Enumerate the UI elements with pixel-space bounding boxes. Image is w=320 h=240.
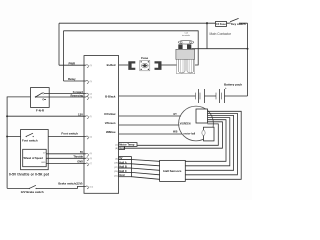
node foot switch junction: [6, 136, 8, 138]
wire key switch branch vertical: [206, 23, 208, 49]
wire 12V: [7, 115, 86, 117]
svg-text:(5): (5): [90, 81, 93, 83]
svg-text:15 Fuse: 15 Fuse: [216, 22, 226, 26]
svg-text:U/Yellow: U/Yellow: [104, 112, 116, 116]
wire contactor to battery riser: [192, 48, 248, 50]
svg-text:(19): (19): [114, 163, 118, 165]
svg-text:(7): (7): [90, 163, 93, 165]
node 12V junction: [6, 115, 8, 117]
hall sensors box: [160, 160, 186, 181]
svg-text:(4): (4): [90, 137, 93, 139]
wire B-Black to battery: [119, 95, 196, 97]
throttle RV1: [23, 149, 47, 166]
svg-text:U/Y: U/Y: [173, 114, 177, 116]
wire brake switch: [7, 186, 86, 188]
wire V phase: [119, 124, 180, 126]
svg-text:W/Blue: W/Blue: [106, 130, 116, 134]
svg-text:Relay: Relay: [68, 77, 76, 81]
wire hall B: [131, 168, 159, 170]
svg-text:5V: 5V: [80, 150, 83, 154]
wire Forward: [44, 93, 86, 95]
svg-text:(3): (3): [90, 97, 93, 99]
wire vertical Relay riser: [63, 31, 65, 81]
svg-text:12V: 12V: [78, 112, 83, 116]
svg-text:Wheel of Speed: Wheel of Speed: [24, 156, 44, 160]
svg-text:Hall Sensors: Hall Sensors: [163, 169, 182, 173]
svg-text:(20): (20): [114, 171, 118, 173]
svg-text:Main Contactor: Main Contactor: [210, 32, 233, 36]
node contactor-battery junction: [247, 48, 249, 50]
svg-text:(3): (3): [115, 158, 118, 160]
svg-text:12V Brake switch: 12V Brake switch: [21, 190, 44, 194]
svg-text:Foot switch: Foot switch: [61, 131, 78, 135]
wire top PWR to key switch: [59, 22, 248, 24]
svg-text:Brake switch(12V): Brake switch(12V): [58, 181, 82, 185]
svg-text:(21): (21): [114, 175, 118, 177]
svg-text:V/Green: V/Green: [105, 121, 116, 125]
wire motor temp gnd: [125, 122, 223, 148]
svg-text:F-N-R: F-N-R: [36, 109, 45, 113]
fuse F1 main: [128, 56, 161, 71]
svg-text:V/GREEN: V/GREEN: [180, 122, 191, 125]
wire throttle gnd: [46, 162, 86, 164]
wire Reversing: [36, 96, 86, 98]
controller U1: [84, 56, 119, 194]
svg-text:motor-hall: motor-hall: [184, 133, 196, 136]
svg-text:(1): (1): [90, 116, 93, 118]
wire right edge battery positive riser: [247, 23, 249, 96]
battery pack BT1: [196, 83, 248, 103]
wire hall A return: [185, 118, 230, 166]
svg-text:B+Red: B+Red: [107, 63, 116, 67]
svg-text:GND: GND: [41, 162, 46, 164]
wire throttle 5V: [46, 153, 86, 155]
wire left main 12V bus: [7, 97, 30, 188]
svg-text:Foot switch: Foot switch: [22, 139, 38, 143]
svg-text:(6): (6): [90, 153, 93, 155]
svg-text:Gnd: Gnd: [119, 146, 125, 150]
pin hooks left edge: [86, 65, 89, 189]
F-N-R switch S1: [31, 88, 50, 113]
node key switch junction: [206, 22, 208, 24]
wire hall 5V: [131, 160, 159, 162]
wire foot switch: [7, 136, 86, 138]
wire hall C: [131, 172, 159, 174]
wire hall C return: [185, 113, 237, 174]
brake switch S3: [21, 185, 44, 194]
svg-text:Key switch: Key switch: [231, 22, 246, 26]
wire motor temp: [137, 124, 218, 145]
wire hall gnd return: [185, 111, 241, 179]
foot switch S2: [21, 130, 49, 170]
wire throttle signal: [46, 157, 86, 159]
svg-text:(9): (9): [90, 65, 93, 67]
wire hall 5V return: [185, 120, 226, 162]
svg-text:(10): (10): [90, 186, 94, 188]
motor M1: [179, 106, 214, 141]
wire hall gnd: [131, 177, 159, 180]
svg-text:(8): (8): [90, 158, 93, 160]
wire vertical PWR riser: [58, 23, 60, 65]
main contactor K1: [176, 32, 195, 73]
svg-text:0-5V throttle or 0-5K pot: 0-5V throttle or 0-5K pot: [9, 173, 50, 177]
wire hall B return: [185, 116, 233, 171]
wire W phase: [119, 133, 183, 135]
wire Relay into controller: [64, 80, 86, 82]
svg-text:Forward: Forward: [73, 90, 84, 94]
wire fuse to contactor: [162, 64, 177, 66]
pin label boxes hall: [114, 156, 131, 177]
wire hall A: [131, 164, 159, 166]
svg-text:Battery pack: Battery pack: [224, 83, 242, 87]
svg-text:W/B: W/B: [173, 132, 178, 134]
svg-text:Gnd: Gnd: [119, 173, 125, 177]
motor temp sensor block: [202, 127, 214, 141]
svg-text:Fuse: Fuse: [141, 56, 148, 60]
svg-text:PWR: PWR: [68, 61, 75, 65]
wire B+Red to fuse: [119, 64, 129, 66]
key switch S4: [229, 18, 246, 26]
wire PWR into controller: [59, 64, 86, 66]
wire U phase: [119, 115, 181, 117]
svg-text:terminals: terminals: [182, 34, 190, 37]
svg-text:B-Black: B-Black: [105, 94, 116, 98]
svg-text:(1): (1): [115, 145, 118, 147]
svg-text:(2): (2): [90, 94, 93, 96]
svg-text:GND: GND: [77, 160, 83, 164]
fuse F2 15A: [216, 22, 227, 27]
svg-text:(17): (17): [114, 167, 118, 169]
svg-text:(8): (8): [115, 148, 118, 150]
pin numbers left edge: [90, 65, 94, 188]
svg-text:Throttle: Throttle: [73, 155, 83, 159]
svg-text:Reversing: Reversing: [70, 94, 83, 98]
wire top Relay to contactor coil: [64, 31, 199, 65]
pin label boxes Motor Temp / Gnd: [115, 143, 137, 150]
